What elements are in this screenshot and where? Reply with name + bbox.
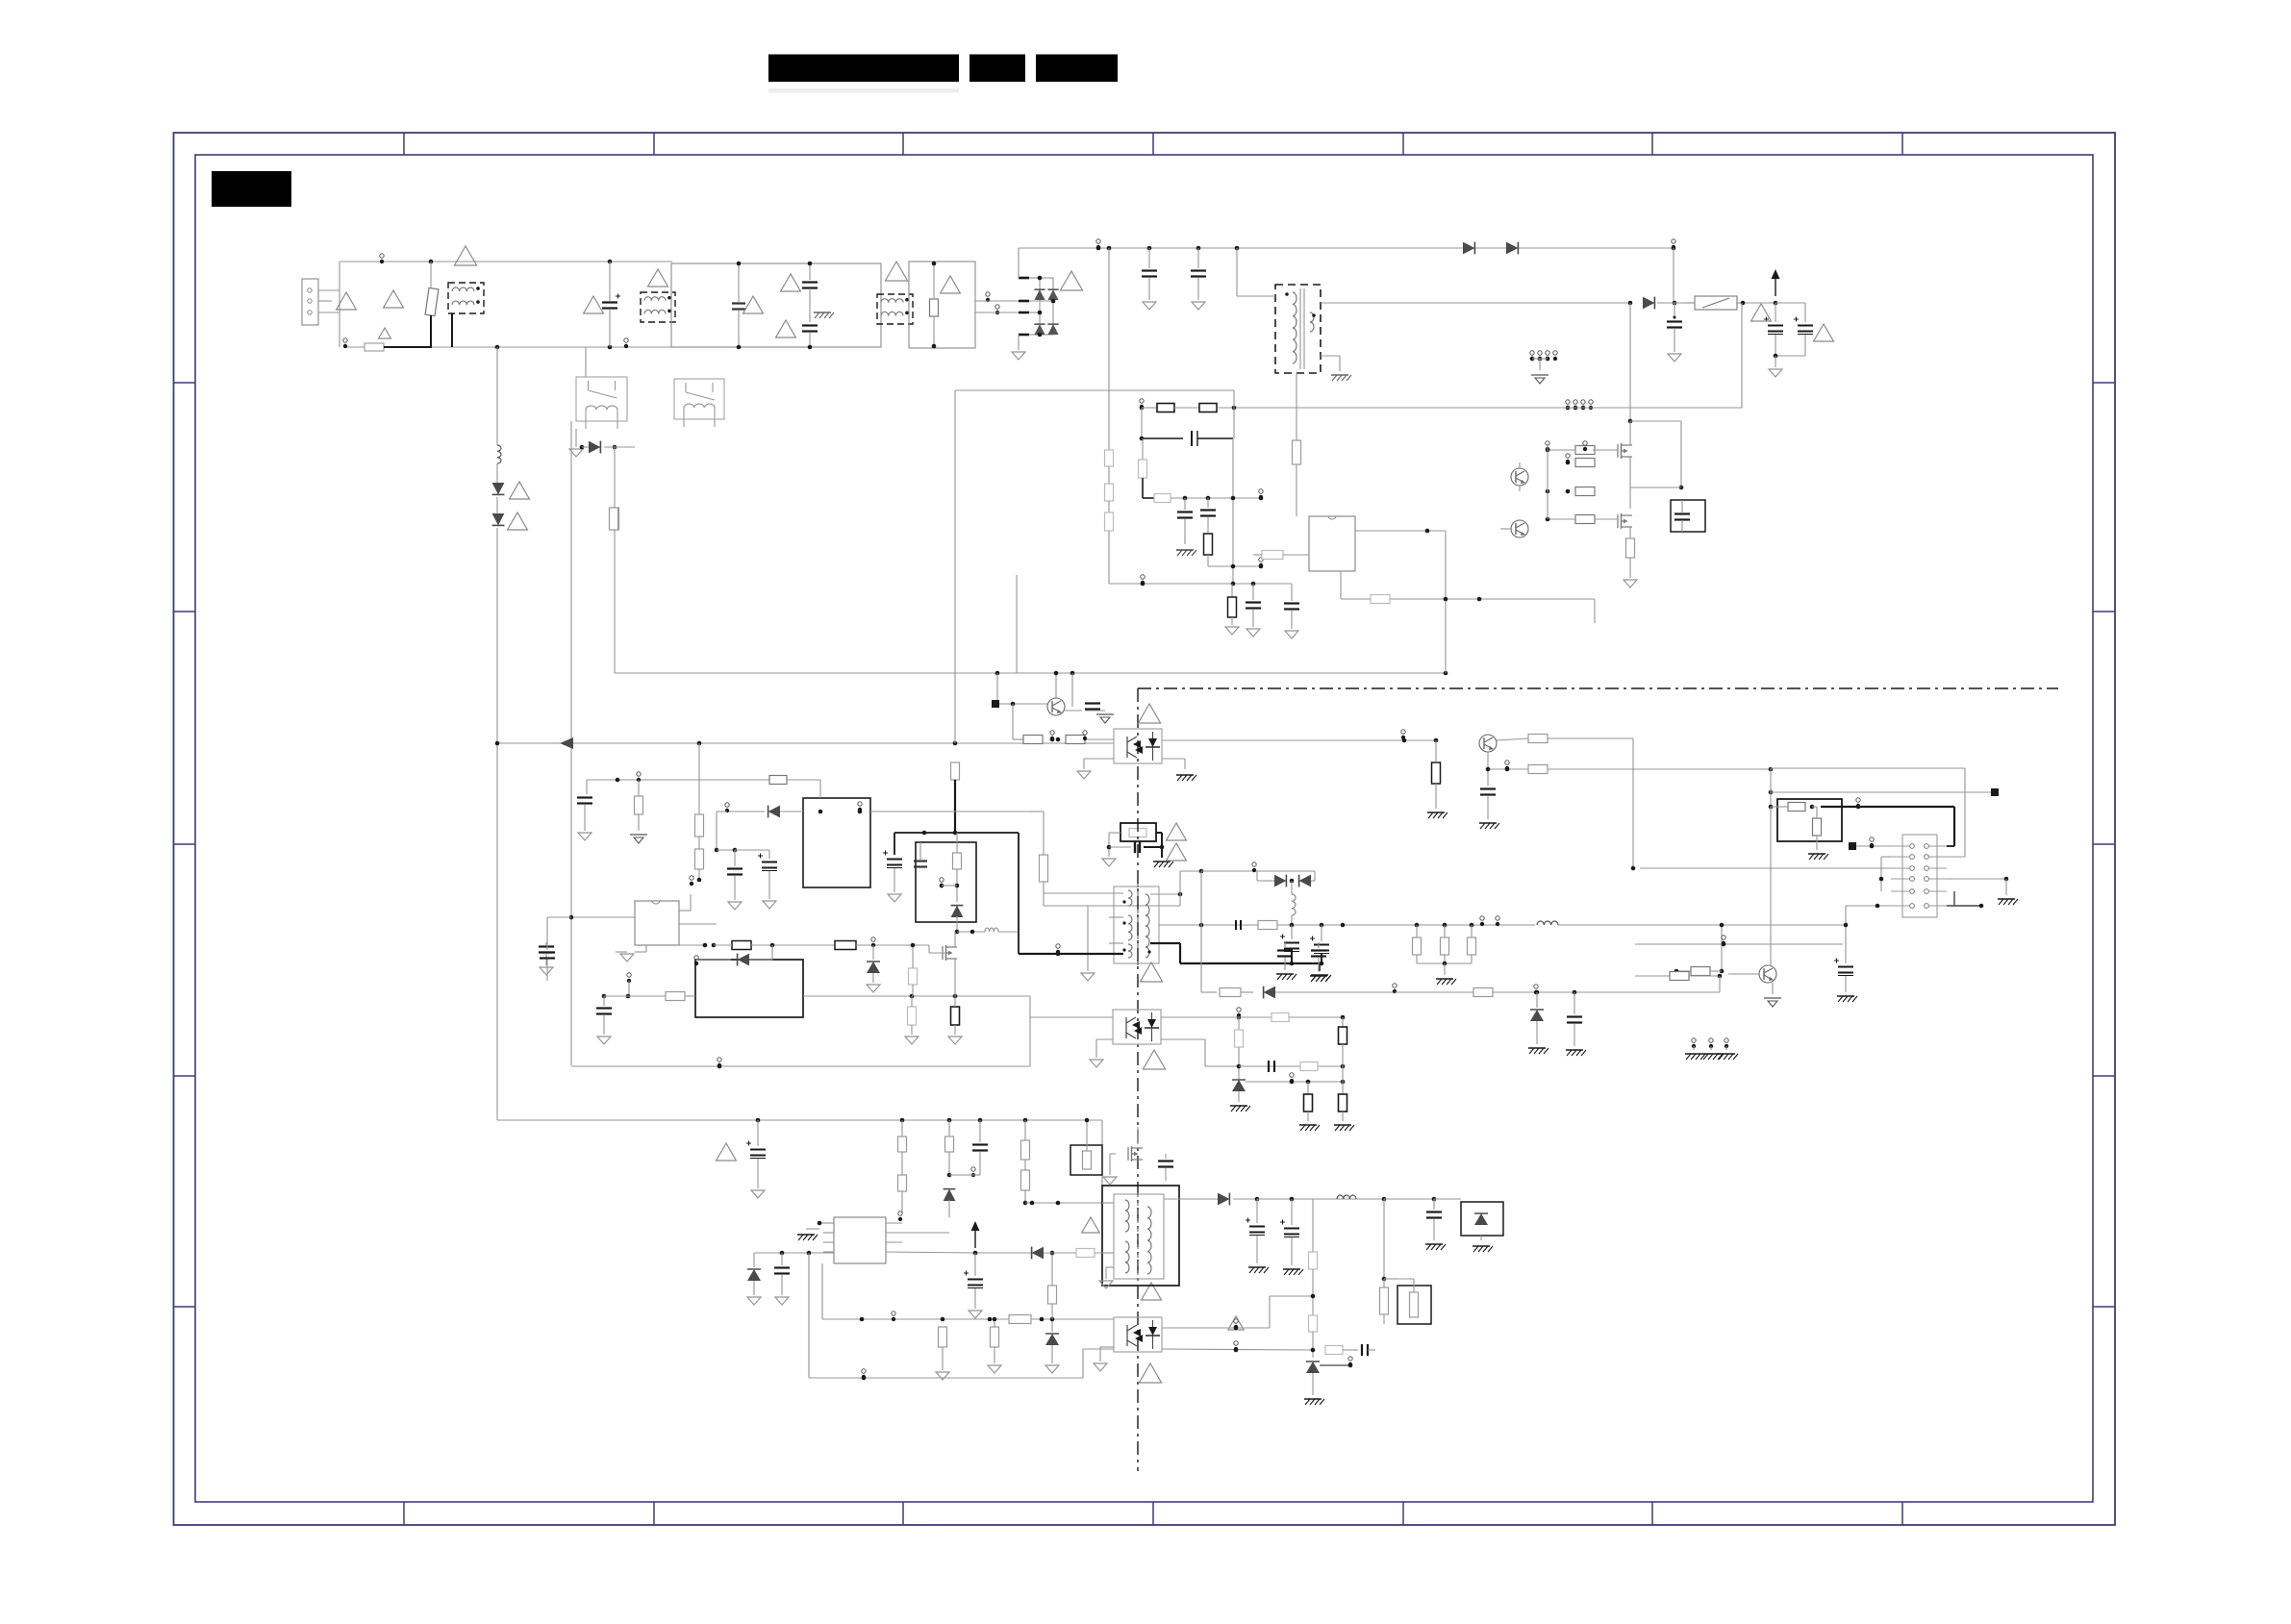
- col x1396: [1334, 1017, 1354, 1131]
- fb thick wire: [1821, 798, 1954, 810]
- res x1360: [1299, 1082, 1320, 1131]
- snub diode: [951, 906, 1019, 935]
- wire y1303: [754, 1251, 834, 1256]
- col x1365: [1304, 1199, 1324, 1405]
- filter box 2: [909, 262, 975, 349]
- hdr row4 gnd: [1947, 877, 2018, 905]
- diode D-x517b: [492, 512, 528, 1120]
- choke LF3: [877, 294, 913, 324]
- tri opto U3: [1138, 704, 1160, 723]
- varistor RV1: [425, 262, 439, 347]
- wire y811: [587, 772, 820, 785]
- T1 left pins: [1019, 893, 1180, 981]
- warning tri LF1: [454, 246, 476, 265]
- res x638 top: [610, 508, 618, 530]
- ic left res: [1253, 551, 1309, 560]
- fb res pair: [1013, 704, 1114, 744]
- S1 pins: [1480, 916, 1499, 926]
- boost diode D-boost: [1643, 297, 1684, 310]
- xfmr aux: [1293, 373, 1301, 516]
- PFC transformer T-PFC: [1275, 285, 1321, 373]
- barrier vertical: [1137, 688, 1139, 1471]
- bulk cap C-bulk: [1667, 303, 1682, 362]
- mosfet Q1: [1618, 421, 1632, 509]
- tri T1: [1082, 1217, 1162, 1300]
- U8 right: [679, 894, 717, 924]
- zener y1008: [867, 945, 880, 992]
- standby res box: [1070, 1118, 1102, 1175]
- cap fb: [1085, 704, 1114, 724]
- wire xfmr out: [1321, 301, 1632, 306]
- cap mid1: [577, 780, 592, 840]
- sec caps: [1280, 925, 1331, 981]
- col x1842: [1768, 807, 1771, 965]
- snubber box: [1671, 500, 1705, 532]
- lower wire y982: [1635, 936, 1843, 947]
- warning tri small: [379, 328, 391, 338]
- dual diode D-sec: [1257, 871, 1315, 925]
- snub box: [914, 833, 976, 922]
- cap U6: [774, 1253, 790, 1305]
- T1 right pins: [1150, 869, 1320, 963]
- bridge rectifier BD1: [1019, 276, 1059, 337]
- box U2 right wire: [870, 811, 1029, 812]
- test cluster 2: [1566, 400, 1594, 411]
- U5 right cols: [803, 994, 1030, 1044]
- T2 left in: [964, 1203, 1114, 1318]
- fb box wires: [1769, 768, 1999, 857]
- mosfet Q2: [1618, 513, 1632, 538]
- stb res up: [1048, 1251, 1057, 1319]
- U8 bottom: [616, 945, 646, 962]
- wire y589: [1208, 558, 1263, 569]
- wire y1433: [809, 1349, 1114, 1380]
- cap C-hv2: [1191, 248, 1206, 310]
- wire drive loop: [615, 671, 1448, 707]
- title bar 2: [969, 55, 1025, 83]
- wire y771: [495, 737, 1114, 749]
- warning tri 2: [384, 290, 404, 308]
- test pin TP2: [343, 338, 347, 348]
- mosfet snub: [943, 932, 957, 1007]
- tri U4b: [1143, 1050, 1165, 1069]
- warning tri CX1: [584, 296, 604, 313]
- wire y1058r: [1161, 1013, 1345, 1022]
- col x841: [808, 1253, 810, 1378]
- aux box U2: [803, 798, 870, 887]
- wire y424: [1234, 303, 1742, 408]
- connector J1: [302, 279, 340, 325]
- test pins bridge in: [986, 292, 999, 314]
- aux caps: [717, 848, 777, 910]
- rail HV y256: [1019, 239, 1675, 250]
- U8 out wire: [679, 937, 946, 953]
- IC U5 dark: [602, 960, 803, 1017]
- snub loop: [883, 831, 1019, 932]
- hdr row2: [1879, 857, 1965, 891]
- diode aux: [715, 803, 803, 853]
- sec fb rc: [1427, 740, 1499, 829]
- choke LF1: [448, 283, 484, 347]
- wire stub: [540, 915, 635, 981]
- rail S1: [1199, 923, 1535, 928]
- U8 diode loop: [694, 945, 772, 965]
- warning tri 1: [337, 292, 357, 310]
- res trio: [1413, 925, 1476, 985]
- res box low: [1384, 1279, 1431, 1324]
- IC U6: [834, 1217, 886, 1263]
- zener out: [1320, 1357, 1352, 1367]
- triple gnd: [1685, 1038, 1738, 1060]
- startup chain x1153: [1105, 248, 1114, 584]
- sec fb res: [1488, 735, 1773, 774]
- wire q-link: [1630, 421, 1683, 489]
- x594 corner: [570, 1064, 572, 1066]
- hdr row6: [1846, 891, 1983, 908]
- warning tri LF3: [885, 262, 907, 281]
- wire y518: [1154, 489, 1263, 503]
- rail S1 right: [1834, 906, 1857, 1002]
- sec top loop: [1201, 862, 1315, 875]
- opto U3 gnd: [1077, 759, 1196, 781]
- wire x1740: [1673, 248, 1674, 303]
- wire y1125: [1246, 1073, 1345, 1084]
- tri U4a: [1140, 962, 1162, 982]
- npn fb: [1047, 671, 1082, 715]
- main transformer T1: [1114, 883, 1159, 965]
- opto U4: [1113, 1010, 1161, 1044]
- title bar 3: [1036, 55, 1118, 83]
- hdr row3: [1640, 867, 1891, 869]
- border frame inner: [195, 155, 2093, 1502]
- T2 cap2: [1425, 1199, 1446, 1250]
- right col x1790: [1720, 923, 1725, 974]
- pin rail: [1672, 239, 1675, 249]
- barrier horizontal: [1138, 687, 2058, 689]
- gate res Q2: [1546, 515, 1618, 524]
- gate res Q1: [1546, 441, 1618, 455]
- U6 pins right: [886, 1223, 975, 1253]
- PFC IC U1: [1309, 516, 1355, 571]
- U6 pins left: [797, 1221, 834, 1252]
- standby col x1066: [1021, 1120, 1030, 1205]
- wire bottom rail: [432, 345, 672, 350]
- y1404 right: [1325, 1344, 1375, 1356]
- drv res 1: [1566, 454, 1595, 467]
- fuse F1: [345, 343, 432, 351]
- test pin TP1: [380, 254, 384, 263]
- filter box 1: [671, 262, 881, 350]
- IC U8: [635, 901, 679, 945]
- fbk top caps: [1276, 942, 1330, 982]
- T2 out caps: [1246, 1199, 1303, 1275]
- res row y424: [1140, 390, 1237, 440]
- U7 gnd: [1094, 1347, 1114, 1371]
- sq pad 1: [992, 700, 1047, 708]
- npn drv1: [1511, 462, 1528, 491]
- col x1288: [1230, 1008, 1250, 1112]
- mos stb: [1103, 1127, 1173, 1185]
- col x1256: [1200, 498, 1216, 566]
- fusible link: [1684, 296, 1775, 310]
- loop right: [615, 575, 1017, 673]
- wire drain: [1628, 303, 1633, 423]
- wire y607: [1109, 575, 1292, 587]
- sec fb npn: [1401, 730, 1528, 752]
- faint subtitle bar: [768, 88, 959, 93]
- wire y1251: [1025, 1201, 1102, 1206]
- zener box: [1461, 1202, 1503, 1252]
- opto U7: [1114, 1317, 1162, 1352]
- opto U4 out: [1161, 1039, 1239, 1066]
- relay diode D-RL: [569, 429, 635, 508]
- res x727: [690, 743, 704, 886]
- NTC on x517: [497, 347, 501, 486]
- relay RL1: [576, 347, 627, 429]
- col x1188 res: [1139, 438, 1155, 498]
- ground BD1: [1012, 335, 1025, 360]
- cap C-hv1: [1142, 248, 1157, 310]
- tri U7: [1139, 1316, 1244, 1383]
- opto U4 gnd: [1090, 1039, 1113, 1067]
- standby col x987: [944, 1120, 976, 1217]
- choke LF2: [641, 292, 675, 322]
- cap row y456: [1142, 431, 1233, 584]
- stb res gnd: [936, 1327, 949, 1380]
- zener U6a: [747, 1253, 761, 1305]
- col x1232: [1176, 498, 1196, 556]
- sec wire2: [1201, 871, 1720, 998]
- wire y623: [1341, 571, 1595, 623]
- npn drv2: [1500, 444, 1548, 537]
- hdr sq pad: [1849, 837, 1891, 850]
- res mid1: [630, 780, 647, 843]
- opto U3 out: [1162, 738, 1438, 743]
- standby col x788: [717, 1120, 766, 1198]
- sense col: [1029, 812, 1048, 893]
- ic right: [1355, 529, 1446, 673]
- header CN2: [1891, 835, 1947, 917]
- wire x594: [570, 421, 572, 1065]
- test cluster 1: [1530, 351, 1558, 384]
- U5 cap: [596, 994, 666, 1044]
- wire y1109r: [1239, 1061, 1345, 1072]
- wire y700b: [996, 673, 998, 704]
- ic sub caps: [1225, 584, 1299, 638]
- zener col1: [1528, 992, 1548, 1054]
- standby col x1019: [969, 1120, 988, 1175]
- diode D-x517a: [492, 482, 530, 515]
- warning tri LF2: [648, 269, 668, 287]
- res y1010: [1674, 967, 1722, 977]
- supply arrow: [1772, 269, 1780, 305]
- cap col2: [1566, 992, 1586, 1056]
- wire L bus: [339, 262, 340, 347]
- warning tri BD1: [1060, 271, 1082, 290]
- fb block box: [1777, 799, 1842, 860]
- drv res 2: [1546, 487, 1595, 496]
- test pins LF2: [624, 338, 628, 348]
- wire auxin: [819, 780, 821, 798]
- out caps: [1751, 303, 1834, 377]
- wire y1109: [571, 1017, 1113, 1068]
- standby transformer T2: [1102, 1186, 1179, 1286]
- wire top rail: [340, 260, 672, 264]
- wire bridge up: [1018, 248, 1020, 278]
- U5 top: [539, 942, 554, 975]
- wire y406: [955, 389, 1234, 391]
- opto U3: [1114, 729, 1162, 763]
- S1 coil: [1537, 921, 1846, 925]
- T2 out diode: [1164, 1193, 1461, 1206]
- relay RL2: [674, 379, 724, 427]
- stb zener: [1045, 1317, 1059, 1373]
- wire xfmr in: [1237, 248, 1275, 296]
- standby col x938: [898, 1120, 907, 1221]
- border frame outer: [174, 133, 2116, 1525]
- X-cap CX1: [602, 262, 620, 347]
- drain col x995: [951, 390, 960, 835]
- U6 bottom: [822, 1263, 1114, 1324]
- ground hatch T-PFC: [1321, 356, 1351, 381]
- res R-RL: [611, 508, 619, 673]
- src res: [1624, 538, 1637, 587]
- T2 low res: [1380, 1199, 1389, 1324]
- frame zone ticks: [174, 133, 2116, 1525]
- diode D-hv1: [1463, 242, 1518, 255]
- hdr row1 right: [1947, 807, 1954, 846]
- wire to bridge: [975, 301, 1019, 312]
- Y-cap block: [1102, 823, 1186, 867]
- stb res2 gnd: [988, 1317, 1001, 1373]
- T2 gnd: [1099, 1267, 1114, 1288]
- redacted block: [212, 171, 291, 207]
- col x1705: [1631, 738, 1636, 870]
- npn sec: [1635, 965, 1781, 1007]
- title bar 1: [768, 55, 959, 83]
- S1 coupling: [1236, 920, 1277, 930]
- res x949: [909, 945, 918, 996]
- U7 out: [1162, 1296, 1313, 1352]
- wire y1165: [497, 1118, 1102, 1186]
